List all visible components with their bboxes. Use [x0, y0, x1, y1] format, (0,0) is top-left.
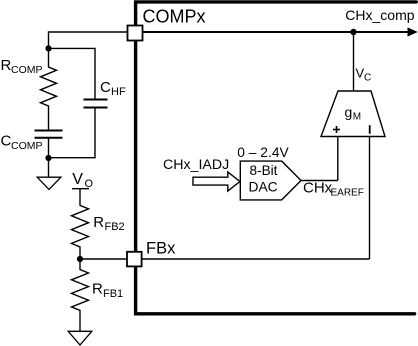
pin FBx (terminal square) [127, 252, 142, 267]
svg-text:R: R [93, 214, 104, 231]
wire gm inverting input to FBx net [369, 137, 371, 260]
wire node B to ground [48, 158, 50, 177]
svg-text:FB1: FB1 [103, 288, 123, 300]
svg-text:COMP: COMP [11, 140, 43, 152]
svg-text:COMPx: COMPx [143, 6, 206, 26]
label CCOMP [1, 133, 43, 153]
svg-text:0 – 2.4V: 0 – 2.4V [237, 145, 289, 160]
node VO terminal bar [72, 188, 89, 190]
svg-text:8-Bit: 8-Bit [250, 163, 278, 178]
wire COMPx pin to CHx_comp output [142, 31, 409, 33]
input bus arrow CHx_IADJ [193, 172, 240, 191]
resistor RCOMP [41, 48, 57, 129]
label CHxEAREF [303, 180, 364, 199]
label COMPx [143, 6, 206, 26]
IC block outline [136, 2, 417, 314]
svg-text:R: R [92, 281, 103, 298]
label CHx_IADJ [163, 157, 229, 173]
svg-text:g: g [345, 104, 353, 120]
svg-text:HF: HF [111, 86, 126, 98]
capacitor CHF [84, 100, 108, 108]
capacitor CCOMP [35, 131, 63, 138]
label CHF [100, 79, 126, 98]
label gM [345, 104, 362, 123]
svg-text:CHx: CHx [303, 180, 333, 197]
svg-text:DAC: DAC [249, 180, 278, 195]
label 0 - 2.4V [237, 145, 289, 160]
svg-text:C: C [1, 133, 12, 150]
label RFB2 [93, 214, 124, 233]
svg-text:C: C [100, 79, 111, 96]
op-amp gM (transconductance amplifier) [321, 91, 385, 137]
node B (bottom junction of compensation network) [45, 155, 51, 161]
svg-text:FB2: FB2 [105, 221, 125, 233]
svg-text:EAREF: EAREF [331, 188, 364, 199]
svg-text:COMP: COMP [11, 64, 43, 76]
DAC U1 (8-bit DAC) [240, 161, 301, 200]
label RFB1 [92, 281, 123, 301]
label RCOMP [1, 57, 43, 76]
label VC [356, 66, 372, 84]
label VO [72, 171, 93, 190]
resistor RFB2 [72, 189, 89, 259]
svg-text:CHx_comp: CHx_comp [345, 7, 414, 23]
wire FBx pin to gm inverting input (inside block) [141, 258, 370, 260]
wire gm non-inverting input to CHxEAREF [337, 137, 339, 181]
svg-text:FBx: FBx [146, 240, 176, 258]
svg-text:V: V [72, 171, 83, 188]
pin I (inverting input mark) [369, 125, 371, 134]
wire CCOMP bottom to node B [48, 138, 50, 158]
pin + (non-inverting input mark) [333, 126, 340, 133]
label CHx_comp [345, 7, 414, 23]
wire COMPx pin to left corner and down to node A [49, 32, 130, 48]
wire node C to FBx pin [80, 258, 128, 260]
ground (compensation network) [37, 177, 61, 189]
pin COMPx (terminal square) [128, 26, 143, 41]
node C (feedback divider junction) [77, 256, 83, 262]
arrowhead CHx_comp output [408, 28, 417, 36]
label 8-Bit [250, 163, 278, 178]
svg-text:C: C [364, 73, 371, 84]
svg-text:CHx_IADJ: CHx_IADJ [163, 157, 229, 173]
svg-text:M: M [353, 112, 361, 123]
resistor RFB1 [72, 259, 89, 331]
node D (junction on COMP wire) [350, 29, 356, 35]
label FBx [146, 240, 176, 258]
wire DAC output CHxEAREF [301, 180, 338, 182]
wire node A to CHF top [49, 48, 96, 99]
wire CHF bottom to node B [49, 108, 96, 158]
label DAC [249, 180, 278, 195]
node A (top junction of compensation network) [45, 45, 51, 51]
ground (feedback divider) [68, 331, 92, 345]
svg-text:R: R [1, 57, 12, 74]
wire node D down to gm output [353, 32, 355, 91]
